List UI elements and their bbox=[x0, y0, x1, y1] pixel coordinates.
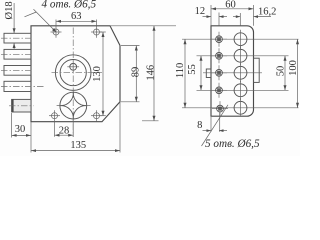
dim 110 bbox=[184, 39, 186, 108]
svg-text:130: 130 bbox=[92, 66, 103, 82]
bolt 3 bbox=[4, 66, 31, 76]
mounting hole top-left bbox=[53, 29, 59, 35]
svg-text:8: 8 bbox=[197, 120, 202, 131]
svg-text:30: 30 bbox=[15, 124, 26, 135]
dim 89 bbox=[121, 45, 140, 47]
mounting hole bottom-left bbox=[52, 113, 58, 119]
svg-text:135: 135 bbox=[70, 140, 86, 151]
bolt 2 centerline bbox=[1, 53, 34, 55]
keyhole 4-lobe inner shape bbox=[60, 92, 87, 119]
right tab bbox=[254, 58, 260, 82]
dim 60 bbox=[210, 5, 212, 26]
key hole row2 bbox=[234, 49, 247, 62]
dim 63 bbox=[56, 20, 97, 22]
bolt 1 bbox=[4, 33, 31, 43]
svg-text:12: 12 bbox=[195, 6, 206, 17]
dim 28 bbox=[72, 119, 74, 137]
latch bolt bbox=[12, 99, 31, 112]
bolt 3 centerline bbox=[1, 69, 34, 71]
svg-text:60: 60 bbox=[225, 0, 236, 11]
screw hole row2 bbox=[211, 48, 227, 63]
screw hole row3 bbox=[211, 65, 227, 80]
screw hole row5 bbox=[212, 101, 228, 116]
svg-text:50: 50 bbox=[276, 66, 287, 77]
svg-text:89: 89 bbox=[131, 67, 142, 78]
svg-text:Ø18: Ø18 bbox=[4, 1, 15, 19]
screw hole row4 bbox=[211, 83, 227, 98]
key hole row1 bbox=[234, 33, 247, 46]
dim 100 bbox=[297, 39, 299, 108]
leader to top-left hole bbox=[25, 12, 37, 17]
dim 130 bbox=[100, 31, 106, 33]
dim 16,2 bbox=[239, 13, 241, 26]
svg-text:4 отв. Ø6,5: 4 отв. Ø6,5 bbox=[42, 0, 97, 11]
right view body outline bbox=[211, 26, 254, 116]
bolt 4 bbox=[4, 81, 31, 91]
latch centerline bbox=[9, 105, 34, 107]
keyhole rosette circle bbox=[60, 92, 87, 119]
leader to screw hole row5 bbox=[202, 105, 229, 146]
mounting hole top-right bbox=[94, 29, 100, 35]
left tab bbox=[206, 69, 211, 78]
row centerlines bbox=[182, 38, 299, 40]
key hole row5 bbox=[234, 101, 247, 114]
dia18 dimension arrows bbox=[13, 3, 15, 33]
svg-text:5 отв. Ø6,5: 5 отв. Ø6,5 bbox=[205, 138, 260, 150]
svg-text:16,2: 16,2 bbox=[258, 7, 276, 18]
dim 30 bbox=[11, 113, 13, 138]
mounting hole bottom-right bbox=[94, 113, 100, 119]
bolt 1 centerline bbox=[1, 37, 34, 39]
dim 8 bbox=[210, 117, 212, 132]
svg-text:63: 63 bbox=[71, 11, 82, 22]
svg-text:100: 100 bbox=[288, 60, 299, 76]
svg-text:110: 110 bbox=[175, 63, 186, 78]
svg-text:55: 55 bbox=[187, 64, 198, 75]
front view lock body outline bbox=[31, 26, 120, 122]
keyhole horizontal ticks bbox=[57, 105, 63, 107]
cylinder boss inner circle bbox=[60, 60, 86, 86]
bolt 2 bbox=[4, 49, 31, 59]
svg-text:146: 146 bbox=[145, 65, 156, 81]
bolt 4 centerline bbox=[1, 86, 44, 88]
dim 50 bbox=[284, 56, 286, 91]
dim 146 bbox=[110, 25, 176, 27]
dim 12 bbox=[218, 13, 220, 26]
horizontal centerline of cylinder bbox=[52, 72, 103, 74]
svg-text:28: 28 bbox=[59, 125, 70, 136]
cylinder center hole bbox=[70, 63, 77, 70]
cylinder boss outer circle bbox=[55, 55, 91, 91]
screw hole row1 bbox=[211, 32, 227, 47]
dim 55 bbox=[200, 56, 202, 91]
key hole row3 bbox=[234, 66, 247, 79]
dim 135 bbox=[30, 122, 32, 153]
key hole row4 bbox=[234, 84, 247, 97]
vertical centerline of front view bbox=[72, 28, 74, 138]
